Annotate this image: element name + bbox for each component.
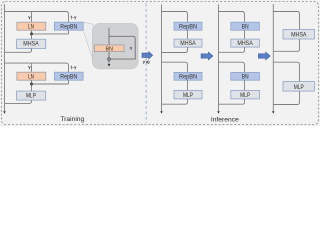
node 1-gamma label block1 (71, 16, 76, 19)
box BN col2 bottom (231, 72, 260, 80)
wire: block1 gamma drop to LN (31, 12, 33, 23)
svg-text:LN: LN (28, 74, 34, 81)
box RepBN col1 top (174, 22, 202, 30)
wire: MHSA1 output to rail (5, 48, 32, 52)
ground arrow: col1 rail bottom (160, 111, 162, 114)
box BN col2 top (231, 22, 260, 30)
svg-text:MLP: MLP (183, 92, 193, 99)
wire: col1 MLP out to rail (162, 99, 188, 104)
junction circle block1 (30, 33, 32, 35)
ground arrow: inset output arrowhead (108, 64, 111, 67)
dashed separator between Training and Inference (145, 4, 147, 124)
svg-text:BN: BN (242, 24, 249, 31)
wire: block2 input (5, 63, 69, 72)
wire: col1 RepBN2 to MLP (187, 80, 189, 90)
wire: LN2 and RepBN2 outputs merge (32, 80, 69, 91)
wire: col1 RepBN to MHSA (187, 30, 189, 39)
wire: col2 MHSA out to rail (219, 47, 245, 52)
ground arrow: col3 rail bottom (272, 111, 274, 114)
svg-text:RepBN: RepBN (60, 24, 77, 31)
svg-text:MLP: MLP (294, 84, 304, 91)
box MHSA training (17, 39, 46, 48)
junction circle inset add (108, 58, 111, 61)
box BN inset (94, 45, 124, 52)
wire: col1 second input (162, 62, 188, 72)
box MLP training (17, 91, 46, 100)
svg-text:MLP: MLP (240, 92, 250, 99)
svg-text:BN: BN (105, 46, 113, 52)
node 1-gamma label block2 (71, 66, 76, 69)
wire: col2 BN2 to MLP (244, 80, 246, 90)
wire: col2 BN to MHSA (244, 30, 246, 39)
figure background panel (0, 0, 320, 126)
wire: col3 MHSA out to rail (273, 39, 299, 51)
wire: LN1 and RepBN1 outputs merge (32, 30, 69, 39)
svg-text:MHSA: MHSA (291, 32, 307, 39)
wire: col2 MLP out to rail (219, 99, 245, 104)
wire: inference col1 rail + top input (162, 4, 188, 111)
svg-text:RepBN: RepBN (179, 74, 197, 81)
wire: col3 MLP out to rail (273, 91, 299, 104)
box MHSA col3 (283, 30, 314, 40)
box MLP col2 (231, 90, 260, 99)
magnifier wedge from RepBN to inset (83, 22, 95, 68)
box RepBN block1 (54, 22, 83, 30)
svg-text:MHSA: MHSA (237, 40, 253, 47)
box RepBN block2 (54, 72, 83, 80)
node eta label (130, 47, 131, 50)
svg-text:Training: Training (60, 116, 84, 123)
box LN block2 (17, 72, 46, 80)
box LN block1 (17, 22, 46, 30)
node gamma label block1 (28, 16, 30, 19)
box MHSA col1 (174, 39, 202, 47)
wire: col3 second input (273, 62, 299, 81)
wire: col1 MHSA out to rail (162, 47, 188, 52)
wire: MLP output to rail (5, 100, 32, 103)
ground arrow: col2 rail bottom (217, 111, 219, 114)
ground arrow: training rail bottom (3, 111, 5, 114)
svg-text:RepBN: RepBN (179, 24, 197, 31)
small blue arrow 2 (258, 52, 270, 60)
wire: inference col3 rail + top input (273, 4, 299, 111)
wire: block2 gamma drop to LN (31, 63, 33, 72)
svg-text:Inference: Inference (211, 116, 239, 123)
wire: inset input into BN (108, 28, 110, 45)
svg-text:LN: LN (28, 24, 34, 31)
node gamma=0 label (143, 61, 149, 64)
wire: BN output to add circle (108, 52, 110, 57)
junction circle block2 (30, 83, 32, 85)
wire: training left rail + block1 input (5, 4, 69, 111)
box MHSA col2 (231, 39, 260, 47)
node gamma label block2 (28, 66, 30, 69)
wire: inset output (108, 61, 110, 64)
svg-text:MHSA: MHSA (180, 40, 196, 47)
svg-text:BN: BN (242, 74, 249, 81)
svg-text:RepBN: RepBN (60, 74, 77, 81)
wire: inset eta skip branch (109, 36, 135, 59)
box RepBN col1 bottom (174, 72, 202, 80)
svg-text:MHSA: MHSA (23, 41, 39, 48)
big blue arrow Training to Inference (142, 52, 153, 59)
wire: inference col2 rail + top input (219, 4, 245, 111)
box MLP col3 (283, 82, 314, 92)
small blue arrow 1 (201, 52, 213, 60)
wire: col2 second input (219, 62, 245, 72)
inset blob (RepBN detail) (93, 24, 139, 69)
outer dashed border (2, 2, 319, 125)
svg-text:MLP: MLP (26, 93, 36, 100)
box MLP col1 (174, 90, 202, 99)
